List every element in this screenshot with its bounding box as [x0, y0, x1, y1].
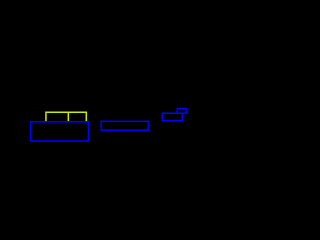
- yellow cab window left: [46, 112, 68, 122]
- yellow cab window right: [68, 112, 86, 122]
- right car body rectangle: [162, 113, 182, 120]
- thin blue rectangle: [101, 121, 148, 130]
- right car cabin rectangle: [177, 109, 186, 113]
- big blue body rectangle: [31, 122, 89, 141]
